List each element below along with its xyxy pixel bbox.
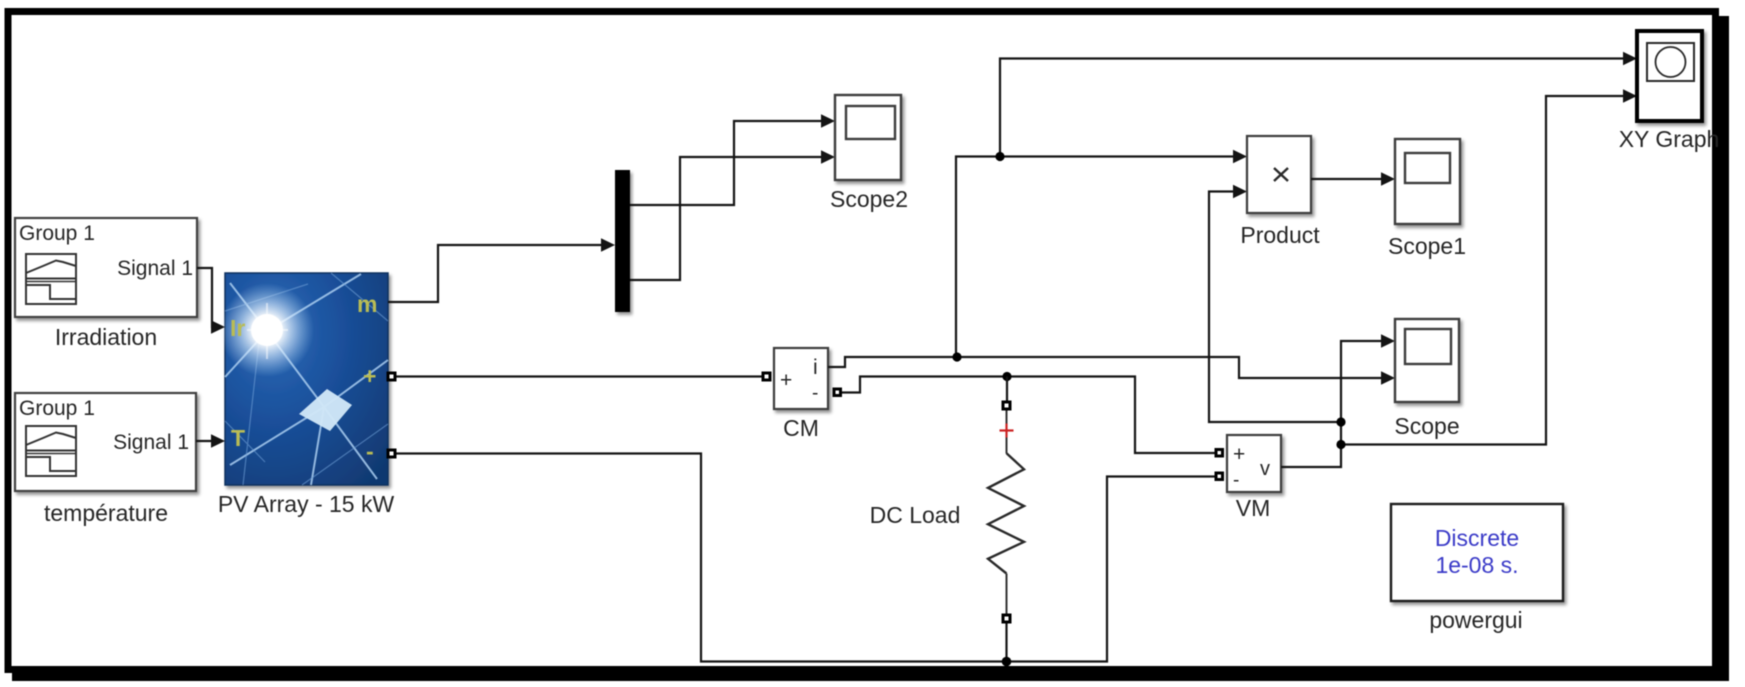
- Scope: [1395, 319, 1459, 402]
- svg-text:DC Load: DC Load: [870, 502, 961, 528]
- wire demux out2 -> Scope2 in2: [630, 157, 823, 280]
- XY Graph: [1637, 31, 1702, 121]
- svg-text:Scope1: Scope1: [1388, 233, 1466, 259]
- svg-text:PV Array - 15 kW: PV Array - 15 kW: [218, 491, 395, 517]
- wire demux out1 -> Scope2 in1: [630, 121, 823, 205]
- arrowhead Scope in1: [1381, 334, 1395, 348]
- arrowhead Product in1: [1233, 150, 1247, 164]
- arrowhead Scope in2: [1381, 371, 1395, 385]
- port VM -: [1215, 472, 1225, 482]
- wire Signal1->Ir: [197, 268, 214, 327]
- powergui block: [1391, 504, 1563, 601]
- arrowhead T: [211, 434, 225, 448]
- sun glare: [220, 283, 314, 377]
- wire branch -> XY in2: [1341, 96, 1625, 445]
- svg-text:T: T: [231, 425, 245, 451]
- DC Load resistor R1: [988, 401, 1024, 662]
- signal builder Irradiation: [15, 218, 197, 317]
- port CM input: [762, 372, 772, 382]
- svg-text:-: -: [812, 383, 818, 404]
- port VM +: [1215, 448, 1225, 458]
- PV Array block U1: [225, 273, 388, 485]
- panel seam lines: [225, 274, 388, 485]
- svg-text:m: m: [357, 291, 377, 317]
- svg-text:-: -: [366, 438, 374, 464]
- wire branch up to Product in1: [956, 157, 1235, 358]
- arrowhead Ir: [211, 320, 225, 334]
- demux bar: [615, 170, 630, 312]
- PV port labels: [230, 291, 377, 464]
- wire tap down to DC load: [1006, 377, 1008, 402]
- arrowhead Scope1 in: [1381, 172, 1395, 186]
- wire PV+ -> CM: [396, 375, 762, 377]
- svg-text:1e-08 s.: 1e-08 s.: [1435, 552, 1518, 578]
- svg-text:VM: VM: [1236, 495, 1271, 521]
- arrowhead demux input: [601, 238, 615, 252]
- arrowhead Scope2 in1: [821, 114, 835, 128]
- svg-text:Ir: Ir: [230, 315, 245, 341]
- node XY branch junction: [995, 152, 1004, 161]
- svg-text:powergui: powergui: [1429, 607, 1522, 633]
- arrowhead Product in2: [1233, 185, 1247, 199]
- wire VM out -> Scope in1: [1281, 341, 1383, 467]
- svg-text:Scope2: Scope2: [830, 186, 908, 212]
- port CM minus: [833, 388, 843, 398]
- wire Signal1->T: [196, 440, 213, 442]
- svg-text:Product: Product: [1240, 222, 1320, 248]
- svg-text:+: +: [780, 369, 792, 392]
- svg-text:Irradiation: Irradiation: [55, 324, 157, 350]
- wire m->demux: [388, 245, 603, 302]
- svg-text:-: -: [1233, 470, 1239, 491]
- node DC load tap: [1002, 372, 1011, 381]
- port PV +: [387, 372, 397, 382]
- svg-text:+: +: [1233, 443, 1245, 466]
- svg-text:+: +: [363, 363, 376, 389]
- VM voltage measurement block: [1227, 435, 1281, 492]
- CM current measurement block: [774, 348, 828, 409]
- svg-text:Scope: Scope: [1394, 413, 1459, 439]
- Scope1: [1395, 139, 1460, 224]
- node VM line junction 2: [1336, 440, 1345, 449]
- wire PV- -> ground bus -> VM-: [396, 454, 1215, 662]
- svg-text:v: v: [1260, 458, 1270, 480]
- frame shadow: [1718, 16, 1729, 681]
- arrowhead XY in1: [1623, 52, 1637, 66]
- Scope2: [835, 95, 901, 180]
- svg-text:Group 1: Group 1: [19, 397, 95, 420]
- node bus junction: [1002, 657, 1012, 667]
- diamond highlight: [299, 389, 352, 431]
- svg-text:Discrete: Discrete: [1435, 525, 1519, 551]
- wire branch up to XY Graph in1: [1000, 59, 1625, 157]
- arrowhead Scope2 in2: [821, 150, 835, 164]
- node CM i junction: [952, 352, 961, 361]
- signal builder temperature: [15, 393, 196, 491]
- svg-text:Signal 1: Signal 1: [117, 257, 193, 280]
- node VM line junction 1: [1336, 417, 1345, 426]
- svg-text:Group 1: Group 1: [19, 222, 95, 245]
- wire Product -> Scope1: [1311, 178, 1383, 180]
- wire CM i -> Scope in2: [828, 357, 1383, 378]
- svg-text:CM: CM: [783, 415, 819, 441]
- svg-text:Signal 1: Signal 1: [113, 431, 189, 454]
- wire CM- -> VM+: [841, 377, 1215, 454]
- svg-text:i: i: [813, 356, 818, 379]
- port PV -: [387, 449, 397, 459]
- arrowhead XY in2: [1623, 89, 1637, 103]
- Product block: [1247, 136, 1311, 213]
- svg-text:température: température: [44, 500, 168, 526]
- svg-text:XY Graph: XY Graph: [1619, 126, 1720, 152]
- wire branch -> Product in2: [1209, 192, 1341, 423]
